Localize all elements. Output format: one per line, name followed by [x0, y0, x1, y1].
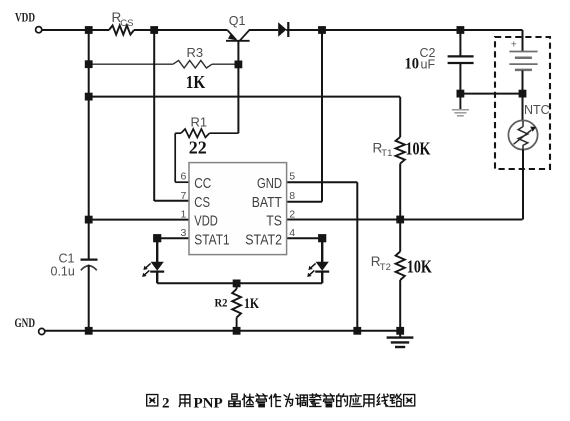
- svg-text:T1: T1: [381, 148, 392, 159]
- svg-text:NTC: NTC: [524, 103, 550, 117]
- svg-text:+: +: [511, 38, 517, 50]
- svg-text:10K: 10K: [407, 257, 432, 277]
- svg-text:VDD: VDD: [15, 10, 35, 24]
- svg-text:R2: R2: [215, 296, 228, 310]
- svg-text:GND: GND: [257, 176, 282, 192]
- svg-text:STAT1: STAT1: [194, 232, 229, 248]
- svg-text:7: 7: [180, 190, 186, 202]
- svg-text:TS: TS: [266, 214, 282, 230]
- svg-text:4: 4: [289, 227, 295, 239]
- svg-text:T2: T2: [380, 262, 391, 273]
- svg-text:5: 5: [289, 171, 295, 183]
- svg-text:CS: CS: [120, 18, 133, 29]
- svg-text:VDD: VDD: [194, 214, 218, 230]
- svg-text:R1: R1: [191, 114, 208, 129]
- svg-text:0.1u: 0.1u: [51, 265, 75, 279]
- svg-text:1K: 1K: [244, 296, 260, 312]
- svg-text:CC: CC: [194, 176, 211, 192]
- svg-text:8: 8: [289, 190, 295, 202]
- svg-text:1: 1: [180, 209, 186, 221]
- svg-text:22: 22: [189, 138, 207, 158]
- svg-text:3: 3: [180, 227, 186, 239]
- svg-text:PNP: PNP: [194, 395, 223, 411]
- svg-text:CS: CS: [194, 195, 210, 211]
- svg-text:10: 10: [405, 56, 420, 73]
- svg-text:uF: uF: [421, 58, 436, 72]
- svg-text:BATT: BATT: [252, 195, 282, 211]
- svg-text:2: 2: [289, 209, 295, 221]
- svg-text:STAT2: STAT2: [245, 232, 282, 248]
- svg-text:C1: C1: [59, 251, 75, 265]
- svg-text:Q1: Q1: [229, 14, 246, 28]
- svg-text:10K: 10K: [406, 138, 431, 158]
- svg-text:2: 2: [162, 395, 170, 411]
- svg-text:R3: R3: [187, 45, 204, 60]
- svg-text:6: 6: [180, 171, 186, 183]
- svg-text:1K: 1K: [186, 72, 206, 92]
- svg-text:GND: GND: [15, 316, 36, 330]
